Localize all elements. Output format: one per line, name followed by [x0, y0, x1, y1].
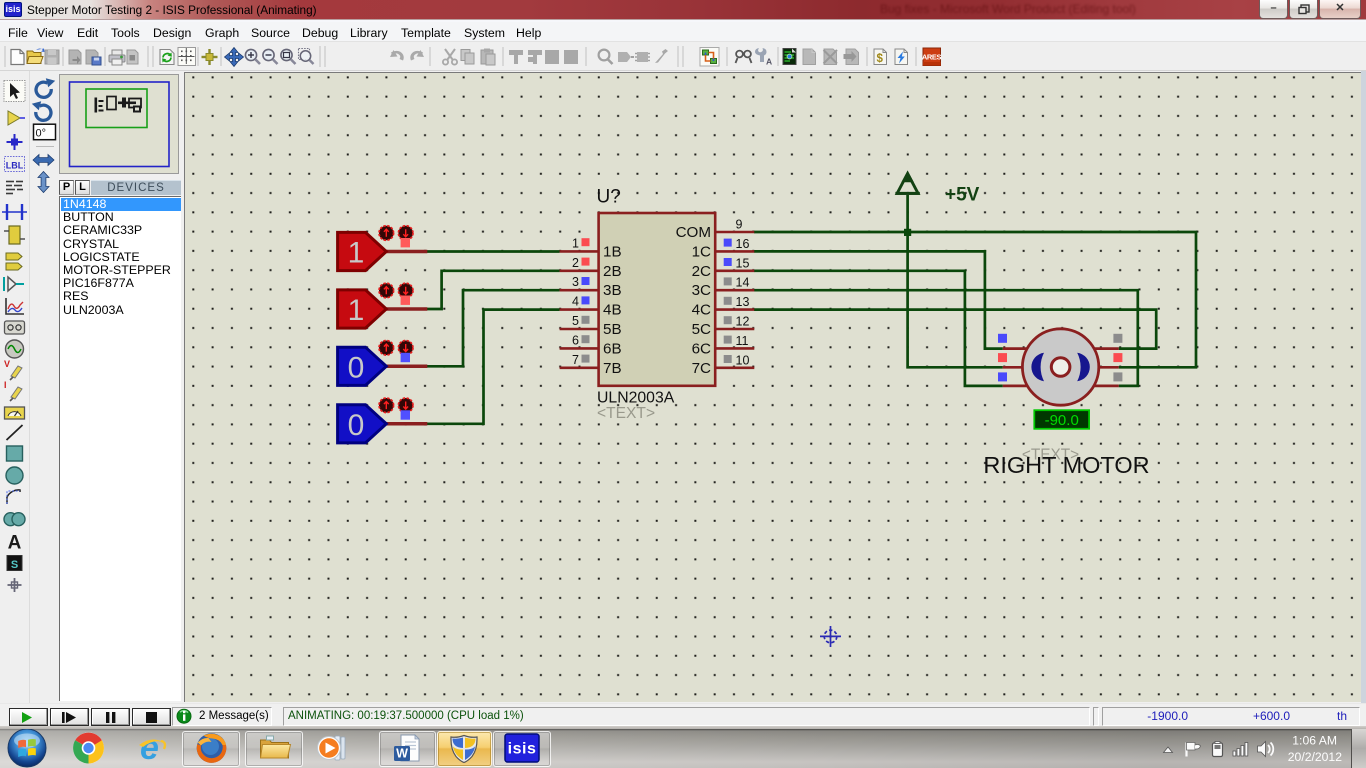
svg-text:A: A — [766, 57, 772, 67]
svg-text:1C: 1C — [692, 243, 711, 260]
wire label mode icon — [5, 157, 25, 172]
save (disabled) — [45, 50, 59, 64]
svg-text:7B: 7B — [603, 360, 622, 377]
pin numbers right 16-10 with squares — [736, 237, 750, 367]
2D markers icon — [14, 578, 16, 592]
show desktop — [1351, 729, 1353, 768]
component mode icon — [8, 111, 20, 125]
bill of materials — [874, 49, 887, 65]
decompose (disabled) — [655, 49, 668, 63]
svg-text:1:06 AM: 1:06 AM — [1292, 734, 1337, 748]
svg-text:COM: COM — [676, 224, 711, 241]
text script mode icon — [6, 182, 23, 194]
tray: speaker — [1258, 742, 1266, 757]
svg-text:13: 13 — [736, 295, 750, 309]
tray: hidden icons arrow — [1164, 747, 1173, 753]
motor RIGHT MOTOR stepper — [983, 329, 1149, 478]
svg-text:15: 15 — [736, 256, 750, 270]
svg-text:S: S — [11, 559, 18, 571]
firefox — [197, 733, 227, 763]
grid dots — [184, 72, 1362, 702]
start orb — [8, 729, 46, 767]
svg-text:20/2/2012: 20/2/2012 — [1288, 750, 1342, 764]
svg-text:1: 1 — [572, 236, 579, 250]
svg-text:6B: 6B — [603, 340, 622, 357]
MAIN — [0, 71, 30, 703]
export — [86, 50, 98, 64]
svg-text:1: 1 — [348, 237, 365, 270]
node origin marker — [820, 626, 841, 647]
tape recorder mode icon — [5, 321, 25, 334]
pick device (disabled) — [599, 50, 610, 61]
block copy (disabled) — [509, 50, 523, 64]
rotation column — [32, 78, 56, 192]
svg-text:6: 6 — [572, 333, 579, 347]
tray: network signal — [1233, 743, 1248, 757]
wire +5V vertical — [908, 195, 1003, 367]
copy (disabled) — [461, 50, 470, 61]
svg-text:I: I — [4, 380, 7, 390]
import (disabled) — [69, 50, 81, 64]
svg-text:U?: U? — [597, 187, 621, 208]
terminals mode icon — [6, 253, 22, 260]
svg-text:4C: 4C — [692, 302, 711, 319]
paste (disabled) — [481, 50, 493, 64]
power +5V terminal — [895, 172, 919, 194]
TASKBAR — [0, 726, 1366, 729]
undo (disabled) — [391, 51, 404, 61]
logic state LS2 (value 1) — [338, 283, 428, 328]
device pin mode icon — [8, 277, 16, 291]
svg-text:0°: 0° — [36, 128, 47, 140]
svg-text:4B: 4B — [603, 302, 622, 319]
subcircuit mode icon — [9, 226, 20, 244]
motor body — [1022, 329, 1098, 405]
wire LS4 to 4B — [427, 310, 560, 424]
junction dot mode icon — [14, 134, 16, 150]
chrome — [73, 733, 104, 764]
chip right pin stubs 9,16-10 — [715, 232, 754, 368]
svg-text:2B: 2B — [603, 263, 622, 280]
explorer folder — [261, 736, 291, 758]
internet explorer — [139, 729, 165, 767]
motor pin state squares — [998, 334, 1007, 343]
wire 2C to motor — [754, 271, 1003, 386]
svg-text:ARES: ARES — [922, 53, 942, 62]
design explorer — [783, 49, 796, 65]
selection mode icon (active) — [4, 81, 25, 102]
svg-text:5B: 5B — [603, 321, 622, 338]
wire COM to motor right COM — [754, 232, 1196, 367]
logic state LS4 (value 0) — [338, 398, 428, 443]
ARES — [923, 48, 941, 66]
svg-text:+5V: +5V — [945, 185, 980, 206]
2D symbol icon — [7, 556, 22, 571]
svg-text:3: 3 — [572, 275, 579, 289]
tray: power/battery — [1213, 743, 1223, 757]
logic state LS3 (value 0) — [338, 341, 428, 386]
refresh — [160, 50, 174, 65]
2D closed path icon — [4, 513, 17, 526]
svg-text:2: 2 — [572, 256, 579, 270]
svg-text:V: V — [4, 359, 10, 369]
svg-text:1B: 1B — [603, 243, 622, 260]
pin numbers left 1-7 — [572, 236, 579, 366]
svg-text:LBL: LBL — [6, 161, 24, 171]
2D box icon — [7, 446, 23, 461]
svg-text:3C: 3C — [692, 282, 711, 299]
new — [11, 50, 24, 65]
svg-text:ULN2003A: ULN2003A — [597, 390, 675, 407]
svg-text:7: 7 — [572, 353, 579, 367]
svg-text:-90.0: -90.0 — [1045, 412, 1079, 429]
svg-text:isis: isis — [508, 741, 537, 758]
wire 3C to motor — [754, 290, 1138, 386]
svg-text:16: 16 — [736, 237, 750, 251]
svg-text:A: A — [8, 533, 22, 554]
svg-text:14: 14 — [736, 276, 750, 290]
remove sheet (disabled) — [824, 49, 837, 65]
svg-text:<TEXT>: <TEXT> — [597, 405, 655, 422]
svg-text:10: 10 — [736, 353, 750, 367]
zoom in — [245, 49, 260, 64]
svg-text:$: $ — [877, 53, 884, 65]
uac shield — [451, 736, 477, 763]
STATUS BAR — [0, 703, 1366, 726]
svg-text:11: 11 — [736, 334, 749, 348]
svg-text:2C: 2C — [692, 263, 711, 280]
svg-text:RIGHT MOTOR: RIGHT MOTOR — [983, 452, 1149, 478]
packaging tool (disabled) — [637, 52, 648, 62]
mark output area (disabled) — [127, 50, 138, 64]
open — [27, 51, 41, 64]
pin state squares left — [582, 238, 590, 246]
wire 1C to motor — [754, 251, 1003, 348]
zoom out — [263, 49, 278, 64]
isis icon — [505, 734, 539, 762]
block rotate (disabled) — [545, 50, 559, 64]
svg-text:0: 0 — [348, 351, 365, 384]
svg-text:W: W — [396, 747, 408, 761]
motor angle display — [1034, 410, 1089, 429]
origin — [208, 49, 210, 65]
word — [394, 735, 419, 761]
svg-text:4: 4 — [572, 295, 579, 309]
property assignment tool — [755, 48, 767, 62]
MENU — [0, 19, 1366, 22]
svg-text:1: 1 — [348, 294, 365, 327]
pan — [225, 48, 244, 67]
graph mode icon — [6, 298, 24, 314]
wire 4C to motor — [754, 310, 1156, 349]
CANVAS — [184, 72, 1362, 702]
redo (disabled) — [410, 51, 423, 61]
svg-text:e: e — [140, 729, 159, 767]
zoom page — [299, 49, 314, 65]
grid toggle (active, sunken) — [178, 48, 196, 66]
motor pin stubs — [1003, 349, 1119, 386]
TOOLBAR — [0, 42, 1366, 71]
svg-text:3B: 3B — [603, 282, 622, 299]
wire LS1 to 1B — [427, 250, 560, 253]
print — [109, 55, 125, 62]
make device (disabled) — [618, 52, 631, 62]
zoom area — [281, 49, 296, 64]
block move (disabled) — [528, 50, 542, 64]
svg-text:6C: 6C — [692, 340, 711, 357]
tray: action center flag — [1185, 743, 1187, 757]
generator mode icon — [6, 340, 24, 358]
block delete (disabled) — [564, 50, 578, 64]
virtual instruments icon — [5, 407, 25, 419]
chip U? ULN2003A body — [599, 213, 716, 386]
logic state LS1 (value 1) — [338, 226, 428, 271]
new sheet (disabled) — [803, 49, 816, 65]
TITLE BAR — [0, 0, 1366, 19]
svg-text:12: 12 — [736, 315, 750, 329]
electrical rule check — [895, 49, 908, 65]
svg-text:7C: 7C — [692, 360, 711, 377]
svg-text:9: 9 — [736, 218, 743, 232]
wire LS3 to 3B — [427, 290, 560, 366]
media player — [318, 736, 346, 760]
wire autorouter (active) — [700, 48, 719, 67]
wire LS2 to 2B — [427, 271, 560, 309]
2D circle icon — [6, 467, 23, 484]
goto sheet (disabled) — [846, 49, 859, 65]
2D arc icon — [7, 490, 20, 504]
chip pin labels inside — [603, 243, 622, 376]
svg-text:5: 5 — [572, 314, 579, 328]
search — [736, 51, 752, 63]
bus mode icon — [6, 204, 8, 220]
cut (disabled) — [445, 49, 455, 60]
svg-text:0: 0 — [348, 409, 365, 442]
node junction +5V/COM — [904, 229, 911, 236]
svg-text:5C: 5C — [692, 321, 711, 338]
chip left pin stubs 1B-7B — [560, 251, 599, 367]
2D line icon — [7, 425, 23, 440]
